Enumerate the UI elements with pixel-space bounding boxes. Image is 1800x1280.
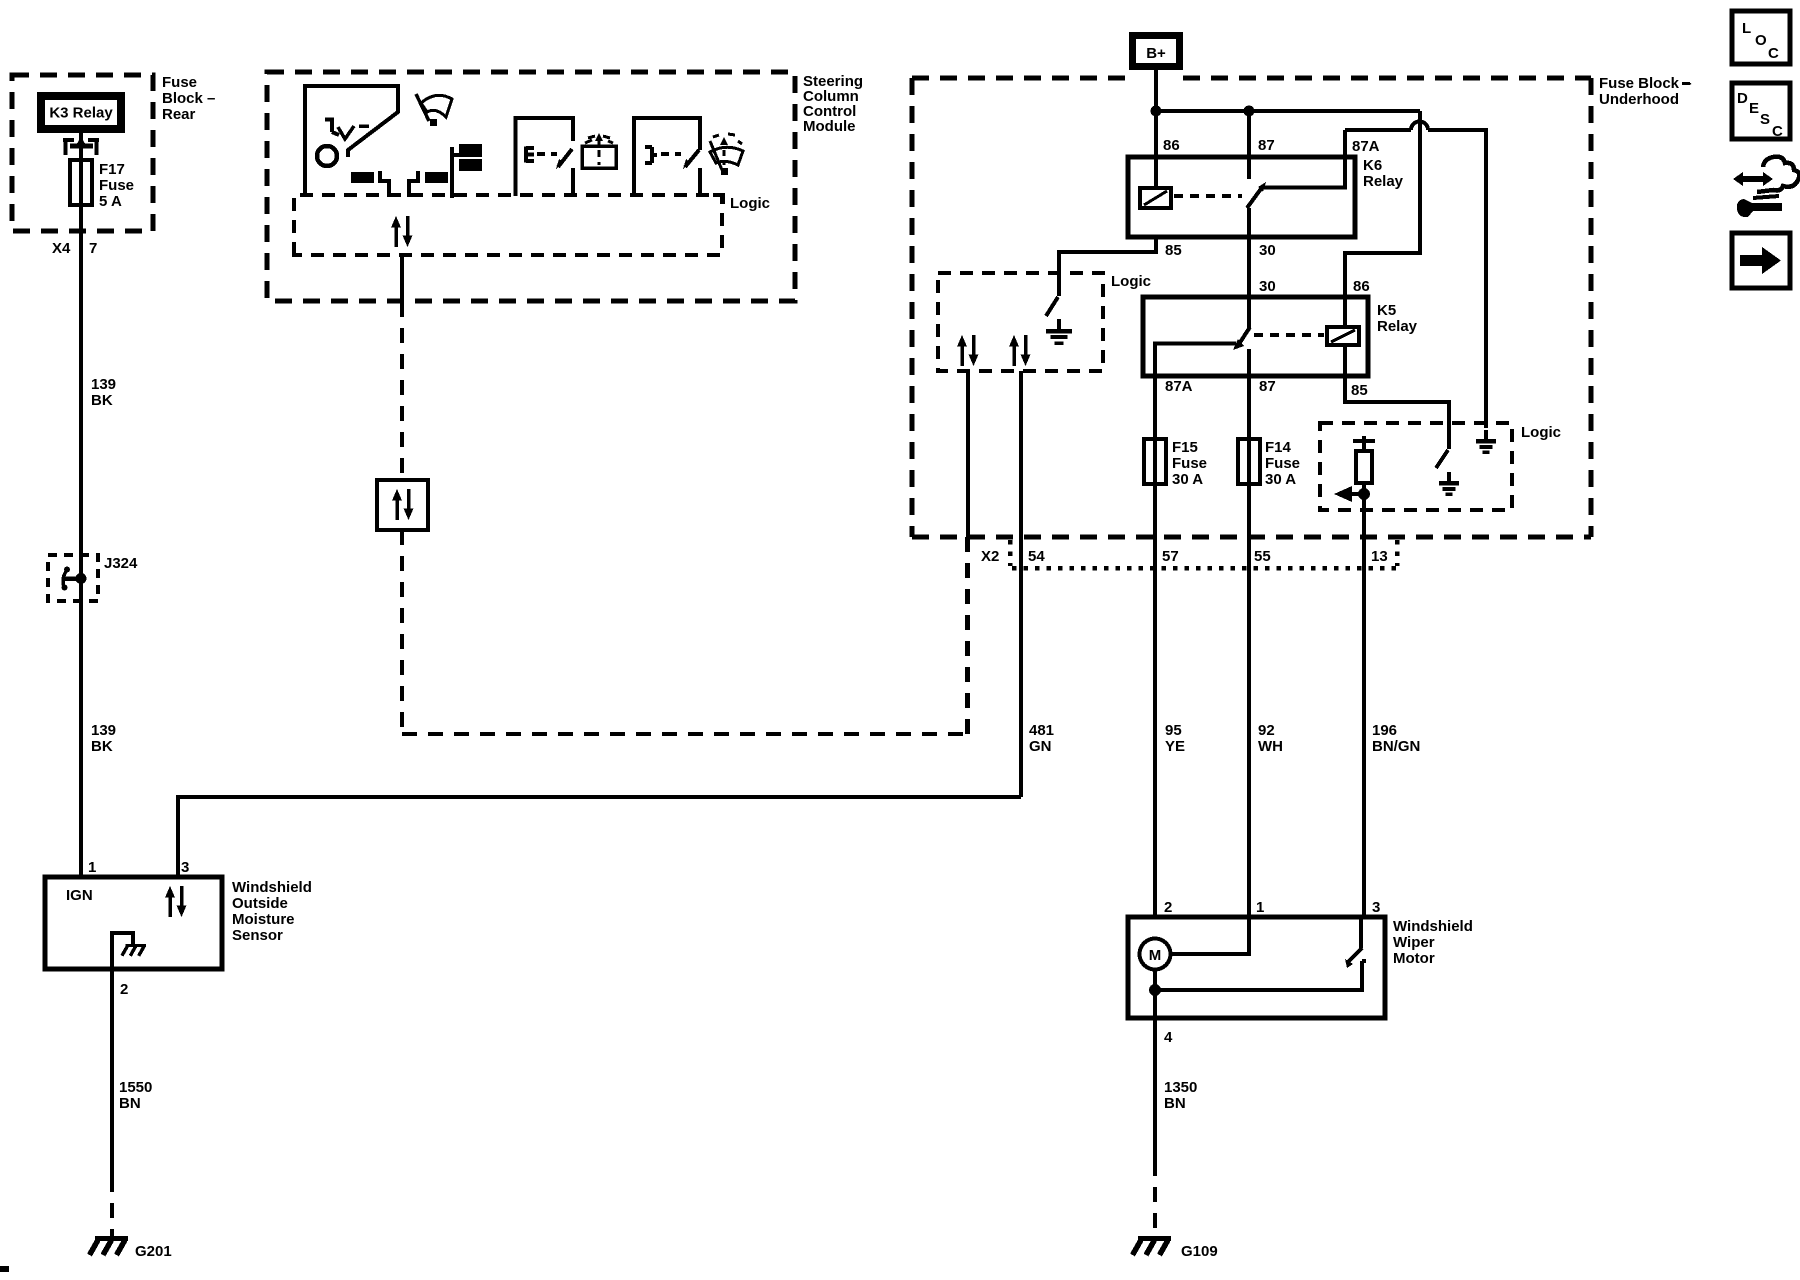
svg-text:F14: F14 <box>1265 439 1292 456</box>
switch detent contact marks <box>325 118 369 140</box>
svg-text:Fuse: Fuse <box>1265 455 1300 472</box>
fuse F17 5A <box>70 160 134 210</box>
logic2 87A wire ground <box>1476 430 1496 452</box>
svg-text:G109: G109 <box>1181 1243 1218 1260</box>
motor M to pin4 wire <box>1153 970 1157 1018</box>
motor pin1 internal wire <box>1171 917 1249 954</box>
svg-text:Relay: Relay <box>1363 173 1404 190</box>
wire label 139 BK upper <box>91 376 116 409</box>
svg-text:Relay: Relay <box>1377 318 1418 335</box>
B+ feed wire to K6 pin 86 <box>1154 70 1158 188</box>
svg-text:85: 85 <box>1165 242 1182 259</box>
switch pivot circle <box>317 146 337 166</box>
svg-text:IGN: IGN <box>66 887 93 904</box>
svg-text:86: 86 <box>1353 278 1370 295</box>
svg-text:C: C <box>1772 123 1783 140</box>
logic2 switch blade <box>1436 450 1448 468</box>
svg-text:J324: J324 <box>104 555 138 572</box>
relay K5 pin30 upper stub <box>1247 297 1251 328</box>
ground G201 <box>90 1239 172 1261</box>
relay K6 coil <box>1140 188 1171 208</box>
motor ground junction <box>1149 984 1161 996</box>
svg-text:K6: K6 <box>1363 157 1382 174</box>
svg-text:196: 196 <box>1372 722 1397 739</box>
wire label 95 YE <box>1165 722 1185 755</box>
wiper icon intermittent <box>710 134 743 175</box>
logic2 switch ground <box>1439 472 1459 494</box>
svg-text:139: 139 <box>91 376 116 393</box>
LOC button <box>1732 11 1790 64</box>
svg-text:86: 86 <box>1163 137 1180 154</box>
logic1 updown arrows pair B <box>1009 335 1031 366</box>
wiper icon top <box>416 94 452 126</box>
svg-text:BN/GN: BN/GN <box>1372 738 1420 755</box>
sccm logic updown arrows <box>391 216 413 247</box>
svg-text:Motor: Motor <box>1393 950 1435 967</box>
svg-text:Rear: Rear <box>162 106 196 123</box>
svg-text:Outside: Outside <box>232 895 288 912</box>
svg-text:K5: K5 <box>1377 302 1396 319</box>
logic1 pin wire to X2-54 <box>1019 371 1023 797</box>
svg-text:3: 3 <box>1372 899 1380 916</box>
K6 pin 85 wire to logic switch <box>1059 237 1156 296</box>
relay K5 box <box>1143 297 1368 376</box>
B+ feed horizontal bus <box>1156 109 1420 113</box>
svg-text:L: L <box>1742 20 1751 37</box>
svg-text:87A: 87A <box>1352 138 1380 155</box>
wire 87 branch down <box>1247 111 1251 179</box>
washer switch box <box>516 118 574 196</box>
windshield wiper motor box <box>1128 917 1473 1018</box>
dashed logic wire to underhood connector <box>402 530 967 734</box>
svg-text:1: 1 <box>88 859 96 876</box>
svg-text:Logic: Logic <box>730 195 770 212</box>
svg-text:X4: X4 <box>52 240 71 257</box>
steering column control module box <box>267 72 795 301</box>
svg-text:WH: WH <box>1258 738 1283 755</box>
dashed logic wire below band <box>966 537 970 734</box>
svg-text:Underhood: Underhood <box>1599 91 1679 108</box>
relay K3 <box>37 92 125 133</box>
svg-text:Logic: Logic <box>1521 424 1561 441</box>
wiper switch box <box>634 118 700 196</box>
svg-text:Windshield: Windshield <box>1393 918 1473 935</box>
fuse block rear module box <box>12 75 153 231</box>
svg-text:K3 Relay: K3 Relay <box>49 105 113 122</box>
relay K5 name <box>1377 302 1418 335</box>
svg-text:5 A: 5 A <box>99 193 122 210</box>
page corner mark <box>0 1266 9 1272</box>
fuse block rear label <box>162 74 215 123</box>
forward arrow button <box>1732 233 1790 288</box>
svg-text:4: 4 <box>1164 1029 1173 1046</box>
svg-text:57: 57 <box>1162 548 1179 565</box>
svg-text:Fuse Block –: Fuse Block – <box>1599 75 1692 92</box>
wire 1350 BN <box>1155 1018 1197 1238</box>
DESC button <box>1732 83 1790 140</box>
svg-text:1350: 1350 <box>1164 1079 1197 1096</box>
switch position step wire 2 <box>409 171 418 197</box>
junction at 87 branch <box>1244 106 1255 117</box>
svg-text:E: E <box>1749 100 1759 117</box>
relay K6 pin87 lower stub <box>1247 208 1251 297</box>
relay K5 coil-contact link <box>1254 333 1324 337</box>
svg-text:M: M <box>1149 947 1162 964</box>
wire label 196 BN/GN <box>1372 722 1420 755</box>
svg-text:95: 95 <box>1165 722 1182 739</box>
sccm logic output wire <box>400 255 404 480</box>
fuse block underhood label <box>1599 75 1692 108</box>
svg-text:481: 481 <box>1029 722 1054 739</box>
svg-text:30: 30 <box>1259 242 1276 259</box>
svg-text:G201: G201 <box>135 1243 172 1260</box>
svg-text:30 A: 30 A <box>1172 471 1203 488</box>
K5 85 wire to logic2 switch <box>1345 376 1449 449</box>
wire K3 relay to sensor pin 1 <box>79 133 83 877</box>
logic2 output wire to pin 13 <box>1362 494 1366 917</box>
svg-text:Fuse: Fuse <box>162 74 197 91</box>
svg-text:30: 30 <box>1259 278 1276 295</box>
logic switch blade (left) <box>1046 297 1058 316</box>
svg-text:55: 55 <box>1254 548 1271 565</box>
harness routing icon <box>1733 157 1799 218</box>
svg-text:D: D <box>1737 90 1748 107</box>
svg-text:13: 13 <box>1371 548 1388 565</box>
relay K6 name <box>1363 157 1404 190</box>
connector symbol below K3 <box>63 137 99 155</box>
connector X2 band dotted rail <box>1010 540 1397 568</box>
fuse F14 30A <box>1238 376 1300 917</box>
margin tick <box>1682 82 1690 85</box>
svg-text:GN: GN <box>1029 738 1052 755</box>
svg-text:Windshield: Windshield <box>232 879 312 896</box>
svg-text:F15: F15 <box>1172 439 1198 456</box>
relay K5 coil <box>1327 327 1359 345</box>
svg-text:Module: Module <box>803 118 856 135</box>
svg-text:7: 7 <box>89 240 97 257</box>
washer pump icon <box>582 133 616 168</box>
relay K6 contact blade <box>1247 182 1266 208</box>
svg-text:YE: YE <box>1165 738 1185 755</box>
svg-text:BK: BK <box>91 392 113 409</box>
sensor pin 3 wire up to connector 54 route <box>176 797 1021 877</box>
svg-text:Moisture: Moisture <box>232 911 295 928</box>
wire 87A over-hop to logic ground <box>1345 122 1486 429</box>
svg-text:Block –: Block – <box>162 90 215 107</box>
svg-text:O: O <box>1755 32 1767 49</box>
logic switch ground (left) <box>1046 319 1072 343</box>
underhood logic box 2 <box>1320 423 1561 510</box>
sensor updown arrows <box>165 886 187 917</box>
svg-text:92: 92 <box>1258 722 1275 739</box>
relay K5 87A internal wire <box>1155 344 1236 377</box>
svg-text:139: 139 <box>91 722 116 739</box>
svg-text:X2: X2 <box>981 548 999 565</box>
motor park switch blade <box>1345 948 1362 968</box>
svg-text:3: 3 <box>181 859 189 876</box>
motor M symbol <box>1140 939 1171 970</box>
twoway signal box on wire <box>377 480 428 530</box>
steering column control module label <box>803 73 863 135</box>
motor pin3 internal stub <box>1359 917 1363 948</box>
svg-text:2: 2 <box>120 981 128 998</box>
svg-text:Logic: Logic <box>1111 273 1151 290</box>
relay K5 pin87 lower stub <box>1247 349 1251 376</box>
windshield outside moisture sensor box <box>45 877 312 969</box>
svg-text:BN: BN <box>1164 1095 1186 1112</box>
svg-text:C: C <box>1768 45 1779 62</box>
logic1 updown arrows pair A <box>957 335 979 366</box>
relay K6 coil-contact link <box>1174 194 1242 198</box>
relay K6 87A internal wire <box>1264 130 1345 188</box>
svg-text:Wiper: Wiper <box>1393 934 1435 951</box>
multifunction wiper switch outline <box>305 86 398 196</box>
svg-text:Sensor: Sensor <box>232 927 283 944</box>
relay K6 box <box>1128 157 1355 237</box>
sensor pin 2 wire <box>112 969 152 1238</box>
switch position step wire 1 <box>380 171 389 197</box>
wire label 481 GN <box>1029 722 1054 755</box>
relay K5 coil pin85 wire <box>1343 345 1347 376</box>
sensor internal ground <box>112 933 146 969</box>
svg-text:1550: 1550 <box>119 1079 152 1096</box>
svg-text:87: 87 <box>1258 137 1275 154</box>
switch position bar 2 <box>425 172 448 183</box>
svg-text:87A: 87A <box>1165 378 1193 395</box>
svg-text:B+: B+ <box>1146 45 1166 62</box>
connector X4 pin 7 <box>52 240 97 257</box>
svg-text:85: 85 <box>1351 382 1368 399</box>
svg-text:54: 54 <box>1028 548 1045 565</box>
svg-text:Fuse: Fuse <box>1172 455 1207 472</box>
svg-text:87: 87 <box>1259 378 1276 395</box>
svg-text:1: 1 <box>1256 899 1264 916</box>
logic2 sense resistor symbol <box>1334 436 1375 502</box>
fuse block underhood box <box>912 78 1591 537</box>
splice J324 <box>48 555 138 601</box>
battery terminal B+ <box>1129 32 1183 70</box>
svg-text:Fuse: Fuse <box>99 177 134 194</box>
ground G109 <box>1133 1239 1218 1261</box>
sccm logic box <box>294 195 770 255</box>
svg-text:BN: BN <box>119 1095 141 1112</box>
svg-text:BK: BK <box>91 738 113 755</box>
svg-text:30 A: 30 A <box>1265 471 1296 488</box>
relay K5 contact blade <box>1233 327 1250 350</box>
motor park switch wire to pin4 node <box>1155 961 1366 990</box>
junction at B+ drop <box>1151 106 1162 117</box>
wire B+ right branch to K5 pin 86 <box>1345 111 1420 327</box>
fuse F15 30A <box>1144 376 1207 917</box>
wire label 92 WH <box>1258 722 1283 755</box>
underhood logic box 1 <box>938 273 1151 371</box>
svg-text:S: S <box>1760 111 1770 128</box>
switch position bar 1 <box>351 172 374 183</box>
svg-text:F17: F17 <box>99 161 125 178</box>
svg-text:2: 2 <box>1164 899 1172 916</box>
logic1 pin wire to X2-53 (dashed below band) <box>966 371 970 537</box>
wire label 139 BK lower <box>91 722 116 755</box>
switch flag contact <box>452 144 482 198</box>
